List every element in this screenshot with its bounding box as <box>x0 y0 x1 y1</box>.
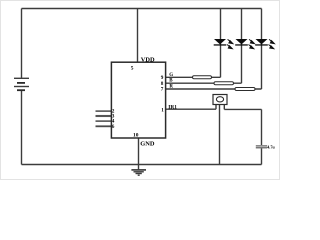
svg-text:VDD: VDD <box>141 57 155 64</box>
svg-text:4.7u: 4.7u <box>267 145 275 150</box>
svg-text:IR1: IR1 <box>168 104 177 110</box>
svg-text:6: 6 <box>112 125 115 130</box>
svg-text:G: G <box>169 73 173 78</box>
svg-text:10: 10 <box>133 133 139 139</box>
svg-text:R: R <box>169 85 173 90</box>
svg-text:1: 1 <box>161 107 164 113</box>
svg-text:5: 5 <box>131 65 134 71</box>
svg-text:7: 7 <box>161 87 164 93</box>
svg-text:GND: GND <box>140 141 155 148</box>
